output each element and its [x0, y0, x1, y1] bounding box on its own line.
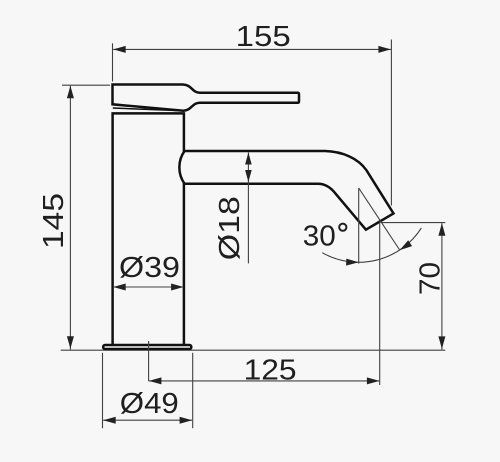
- dim 155 extension left: [112, 43, 114, 81]
- dim diam49 extension right: [192, 353, 194, 428]
- svg-text:125: 125: [244, 354, 297, 386]
- svg-text:155: 155: [236, 21, 291, 53]
- handle lever: [113, 85, 300, 111]
- dim 155 arrow right: [378, 46, 391, 53]
- base counter line: [61, 349, 446, 351]
- dim 155 arrow left: [113, 46, 126, 53]
- dim diam18 arrow down: [245, 170, 252, 182]
- angle 30 arrow at diagonal ray: [400, 240, 412, 250]
- dim 145 line: [69, 86, 71, 350]
- dim 155 line: [113, 48, 391, 50]
- dim 70 extension: [381, 222, 445, 224]
- svg-text:30: 30: [303, 221, 336, 253]
- spout tube: [179, 151, 393, 230]
- dim diam49 extension left: [102, 353, 104, 428]
- faucet body: [113, 113, 184, 344]
- dim 125 arrow right: [367, 377, 380, 384]
- svg-text:Ø18: Ø18: [214, 196, 246, 260]
- svg-text:Ø49: Ø49: [120, 388, 179, 420]
- dim 145 extension top: [62, 84, 110, 86]
- base flange: [103, 345, 191, 349]
- dim diam39 arrow right: [171, 284, 184, 291]
- dim 70 line: [441, 223, 443, 349]
- faucet centerline: [148, 341, 150, 381]
- dim 125 arrow left: [149, 377, 162, 384]
- dim 70 arrow bottom: [438, 336, 445, 349]
- svg-text:Ø39: Ø39: [119, 252, 180, 284]
- dim 125 extension from spout tip: [379, 222, 381, 385]
- dim 145 arrow top: [67, 86, 74, 99]
- dim diam18 arrow up: [245, 153, 252, 165]
- angle 30 arc: [322, 228, 421, 262]
- angle 30 diagonal ray: [359, 188, 400, 250]
- dim diam49 arrow left: [103, 417, 116, 424]
- angle 30 vertical ray: [358, 188, 360, 264]
- svg-text:70: 70: [415, 262, 447, 295]
- dim 70 arrow top: [438, 223, 445, 236]
- dim diam39 line: [113, 286, 183, 288]
- dim diam49 arrow right: [180, 417, 193, 424]
- svg-text:145: 145: [38, 193, 70, 249]
- dim diam49 line: [103, 419, 192, 421]
- dim 145 arrow bottom: [67, 336, 74, 349]
- dim 125 line: [149, 380, 379, 382]
- dim diam39 arrow left: [113, 284, 126, 291]
- dim 155 extension right: [390, 40, 392, 206]
- angle 30 arrow at vertical ray: [346, 259, 359, 266]
- dim diam18 leader line: [247, 153, 249, 264]
- handle base wedge line: [113, 108, 183, 111]
